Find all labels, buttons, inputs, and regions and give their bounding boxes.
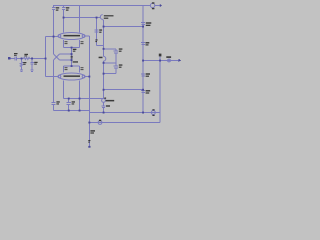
- wire top pin right tube V1: [79, 6, 81, 33]
- tube V1 right pin circle: [82, 35, 85, 38]
- label output meter: [166, 56, 171, 58]
- capacitor C1 top left: [52, 5, 55, 54]
- label C3: [34, 62, 37, 63]
- label R1: [23, 62, 26, 63]
- wire right column x143: [142, 6, 144, 113]
- capacitor CR4: [141, 91, 145, 93]
- label R2: [24, 54, 28, 55]
- label C8: [119, 64, 123, 65]
- label C9: [106, 105, 110, 106]
- input port square: [8, 57, 11, 60]
- capacitor CR1: [141, 23, 145, 25]
- wire top supply rail: [53, 5, 151, 7]
- wire diag port to H2: [102, 19, 105, 20]
- wire input segment 1: [11, 58, 15, 60]
- capacitor CR2: [141, 43, 145, 45]
- junction dots: [21, 4, 162, 124]
- wire top pin left tube V1: [63, 18, 65, 33]
- capacitor C6 on x96: [94, 30, 98, 32]
- capacitor C8: [114, 63, 118, 74]
- wire B horizontal: [60, 53, 72, 55]
- wire cathode bus V1: [64, 47, 80, 49]
- capacitor C2: [62, 5, 65, 18]
- label CR2: [146, 42, 150, 43]
- wire cathode net y98: [64, 98, 104, 100]
- tube V1 plate bar: [64, 35, 81, 37]
- label net port: [104, 15, 114, 16]
- wire input segment 3: [30, 58, 46, 60]
- marks source V3: [99, 120, 101, 121]
- meter circle on output: [168, 59, 171, 62]
- wire grid net y17: [64, 17, 101, 19]
- wire H2 bias line: [104, 26, 144, 28]
- capacitor C9 below G1: [102, 102, 106, 112]
- tube V2 right pin circle: [82, 75, 85, 78]
- tube V1 left pin circle: [58, 35, 61, 38]
- label G1 source: [106, 100, 115, 102]
- capacitor CR3: [141, 74, 145, 76]
- wire crossover diag B: [54, 54, 60, 60]
- label CR3: [146, 73, 150, 74]
- wire crossover diag A: [54, 54, 60, 60]
- tube V2 bottom pins: [64, 81, 80, 111]
- tube V1 electrode bars right: [81, 40, 84, 43]
- marks source V1: [152, 2, 155, 3]
- resistor R2 series: [24, 57, 30, 59]
- source circle V2 on rail: [151, 111, 155, 115]
- wire center column: [71, 48, 73, 67]
- mark device x96: [95, 39, 97, 40]
- wire ladder rungs: [104, 49, 116, 74]
- label wire A: [73, 61, 78, 62]
- capacitor C7: [114, 49, 118, 63]
- wire branch y90: [104, 89, 144, 91]
- tube V2 electrode bars left: [65, 66, 68, 69]
- capacitor C5 bypass right: [67, 99, 71, 111]
- mark x89 end: [88, 146, 90, 148]
- tube V2 plate bar: [64, 75, 81, 77]
- label x160 net flag: [159, 54, 162, 57]
- wire x160 drop: [159, 57, 161, 123]
- wire grid bus V2: [64, 65, 80, 67]
- wire A horizontal: [60, 59, 72, 61]
- output arrow end: [160, 4, 162, 7]
- wire x96 column: [96, 18, 98, 46]
- label center column R: [73, 49, 77, 50]
- dark marks and labels: [14, 2, 171, 147]
- wire input segment 2: [17, 58, 24, 60]
- capacitor C4 bypass left: [51, 103, 55, 111]
- mark x89 lower 2: [88, 140, 90, 141]
- wire output line: [143, 60, 180, 62]
- tube V1 electrode bars left: [65, 40, 68, 43]
- tube V2 left pin circle: [58, 75, 61, 78]
- mark center column cap: [71, 56, 73, 57]
- rail bottom left: [54, 111, 161, 113]
- source circle V1 top right: [150, 3, 154, 7]
- source circle V3: [98, 121, 102, 125]
- label CR4: [146, 90, 151, 91]
- ground symbol 1: [20, 70, 23, 72]
- label x89 lower 1: [90, 130, 95, 131]
- device bump on column: [104, 56, 106, 61]
- tube V2 electrode bars right: [81, 66, 84, 69]
- wire stub after V1: [155, 5, 160, 7]
- label Cin: [14, 53, 18, 54]
- label C2: [66, 7, 69, 8]
- resistor R1 shunt: [20, 59, 23, 70]
- source circle G1: [102, 99, 106, 103]
- tube V1 envelope: [58, 33, 84, 40]
- ground symbol 2: [30, 70, 33, 72]
- capacitor C3 shunt: [30, 59, 34, 70]
- label C4: [56, 101, 59, 102]
- label C5: [72, 101, 75, 102]
- tube V1 bottom pins: [64, 40, 80, 48]
- output end arrow: [179, 59, 181, 62]
- wire right tab column: [85, 36, 89, 147]
- label bump device: [99, 57, 103, 59]
- label C7: [119, 48, 123, 49]
- marks source V2: [152, 109, 154, 110]
- wire left tab column: [46, 37, 59, 77]
- port arc net flag: [100, 15, 102, 20]
- capacitor Cin series plates: [15, 56, 16, 60]
- label C1: [56, 7, 59, 8]
- label CR1: [146, 22, 152, 23]
- label C6: [99, 29, 102, 30]
- wire ladder column: [103, 20, 105, 99]
- tube V2 envelope: [58, 73, 84, 80]
- rail2 lower: [89, 122, 160, 124]
- wire x53 lower drop: [53, 60, 55, 102]
- tube V2 top pins: [64, 66, 80, 73]
- wire corner x96 to ladder: [97, 45, 104, 47]
